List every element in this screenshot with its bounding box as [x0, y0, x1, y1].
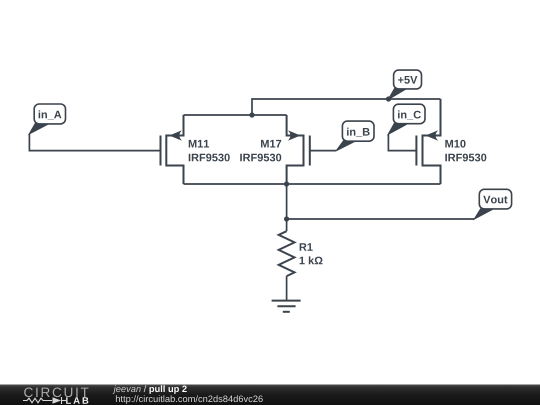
- label M10: [445, 140, 465, 148]
- footer bar: [0, 385, 540, 405]
- resistor R1: [279, 231, 295, 276]
- ground: [272, 301, 301, 312]
- flag in_C: [388, 104, 425, 134]
- wire in_C to M10 gate: [388, 134, 416, 151]
- footer author name jeevan: [113, 385, 141, 394]
- label M17: [261, 140, 281, 148]
- value label IRF9530 of M17: [240, 154, 281, 162]
- CircuitLab logo wordmark CIRCUIT: [24, 388, 88, 398]
- node junction at top rail: [249, 112, 254, 117]
- label M11: [189, 140, 209, 148]
- flag Vout: [474, 189, 511, 219]
- flag in_B: [336, 121, 374, 151]
- footer separator: [144, 385, 147, 392]
- CircuitLab logo resistor-diode symbol: [23, 397, 66, 404]
- wire node to R1: [286, 219, 288, 231]
- wire R1 to ground: [286, 276, 288, 301]
- wire in_A to M11 gate: [29, 134, 160, 151]
- wire in_B to M17 gate: [310, 150, 337, 152]
- CircuitLab logo wordmark LAB: [66, 397, 88, 404]
- node junction at +5V rail: [386, 96, 391, 101]
- wire +5V rail: [252, 99, 441, 115]
- transistor M11 IRF9530 (PMOS): [161, 115, 184, 184]
- footer circuit title pull up 2: [149, 385, 186, 394]
- wire M11/M17 top rail: [184, 114, 287, 116]
- wire node to Vout: [287, 184, 475, 219]
- wire bottom rail: [184, 183, 441, 185]
- value label IRF9530 of M10: [445, 154, 486, 162]
- value label IRF9530 of M11: [189, 154, 230, 162]
- transistor M10 IRF9530 (PMOS): [416, 99, 440, 184]
- flag +5V: [388, 70, 421, 99]
- label R1: [300, 243, 313, 251]
- value label 1 kOhm of R1: [300, 256, 323, 264]
- footer url: [116, 395, 263, 404]
- node junction at Vout: [284, 216, 289, 221]
- flag in_A: [29, 104, 65, 134]
- node junction at bottom rail: [284, 181, 289, 186]
- transistor M17 IRF9530 (PMOS, mirrored): [287, 115, 310, 184]
